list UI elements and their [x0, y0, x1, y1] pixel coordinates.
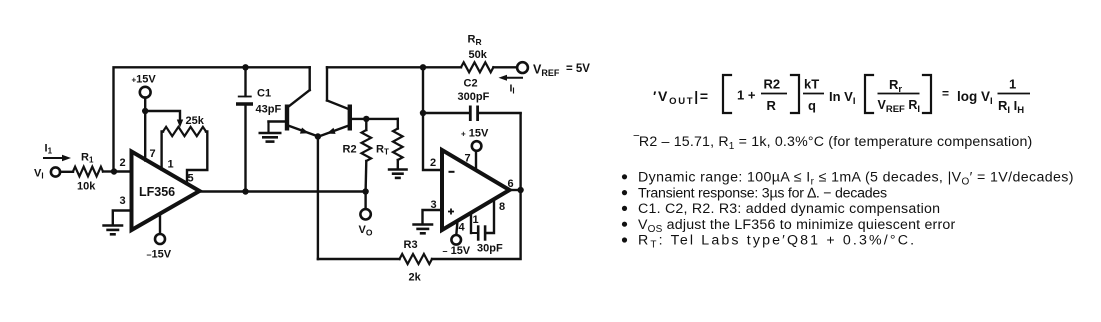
potentiometer 25k — [145, 111, 207, 184]
op-amp U1 LF356 — [132, 152, 200, 231]
formula fraction kT/q — [803, 77, 824, 114]
svg-text:300pF: 300pF — [458, 91, 490, 103]
wire emitters to R3 — [317, 137, 319, 260]
svg-text:R2: R2 — [764, 77, 781, 92]
svg-text:10k: 10k — [77, 181, 96, 193]
resistor RR 50k — [461, 34, 493, 73]
svg-text:2: 2 — [120, 157, 126, 169]
svg-text:3: 3 — [120, 195, 126, 207]
ground RT — [388, 170, 408, 178]
wire R1 to op-amp pin 2 — [114, 170, 132, 172]
svg-text:= 5V: = 5V — [566, 63, 590, 75]
bullet 4 — [622, 217, 956, 235]
current arrow II — [499, 75, 523, 96]
bullet 1 — [622, 170, 1074, 188]
note R2 temperature compensation — [633, 134, 1032, 152]
capacitor C2 300pF — [423, 78, 521, 122]
svg-text:25k: 25k — [186, 115, 205, 127]
transistor Q1 — [269, 67, 317, 136]
pin 2 label U1 — [120, 157, 126, 169]
svg-text:– 15V: – 15V — [443, 245, 471, 257]
svg-text:8: 8 — [499, 201, 505, 213]
svg-text:4: 4 — [459, 222, 466, 234]
formula fraction 1 over RI IH — [998, 77, 1031, 117]
rail Q2 collector — [327, 66, 461, 68]
svg-text:C1. C2, R2. R3: added dynamic: C1. C2, R2. R3: added dynamic compensati… — [638, 201, 940, 217]
pin 3 label U1 — [120, 195, 126, 207]
formula fraction R2/R — [761, 77, 787, 114]
wire inverting-node rail — [114, 67, 310, 171]
svg-text:–15V: –15V — [147, 249, 172, 261]
svg-text:2: 2 — [430, 157, 436, 169]
ground U2 pin 3 — [412, 210, 442, 233]
resistor RT — [376, 119, 403, 169]
svg-text:q: q — [808, 98, 816, 113]
node C1 bottom — [242, 188, 248, 194]
svg-text:=: = — [942, 87, 949, 101]
plus sign U2 — [448, 209, 454, 215]
bullet 2 — [622, 185, 887, 201]
svg-text:7: 7 — [465, 153, 471, 165]
svg-text:1: 1 — [168, 159, 174, 171]
ground U1 pin 3 — [102, 211, 131, 235]
svg-text:7: 7 — [150, 148, 156, 160]
node pin2 junction — [111, 168, 117, 174]
node VO junction — [362, 188, 368, 194]
resistor R1 10k — [60, 152, 114, 193]
-15V supply U2 — [443, 221, 471, 257]
svg-text:RT: Tel Labs type′Q81 + 0.3%/°: RT: Tel Labs type′Q81 + 0.3%/°C. — [638, 233, 916, 251]
output terminal VO — [359, 192, 373, 238]
node RR junction — [420, 64, 426, 70]
svg-text:‾R2 – 15.71, R1 = 1k, 0.3%°C (: ‾R2 – 15.71, R1 = 1k, 0.3%°C (for temper… — [633, 134, 1032, 152]
terminal VREF — [493, 62, 590, 78]
minus sign U2 — [449, 171, 455, 173]
svg-text:1 +: 1 + — [737, 88, 756, 103]
node U2 output — [517, 187, 523, 193]
svg-text:6: 6 — [508, 178, 514, 190]
current arrow I1 — [44, 143, 71, 162]
op-amp U2 — [442, 150, 510, 230]
wire pin 7 U1 — [145, 111, 155, 161]
+15V supply U1 — [132, 74, 157, 112]
pin 5 label U1 — [188, 173, 194, 185]
wire U2 output — [510, 189, 521, 191]
resistor R3 2k — [400, 239, 433, 284]
svg-text:kT: kT — [804, 77, 819, 92]
transistor Q2 — [321, 67, 367, 136]
pin 1 label U1 — [168, 159, 174, 171]
svg-text:2k: 2k — [409, 272, 422, 284]
formula bracket 2 — [791, 75, 799, 113]
formula bracket 3 — [865, 75, 873, 113]
svg-text:C2: C2 — [464, 78, 478, 90]
wire Q2 base to RT — [366, 118, 398, 120]
formula 1 plus — [737, 88, 756, 103]
capacitor 30pF pins 1-8 — [471, 200, 505, 255]
svg-text:LF356: LF356 — [139, 185, 175, 199]
node C2 left — [420, 110, 426, 116]
node common emitters — [315, 133, 321, 139]
pin 2 label U2 — [430, 157, 436, 169]
bullet 5 — [622, 233, 916, 251]
node C1 top junction — [242, 64, 248, 70]
wire bottom feedback left — [318, 258, 400, 260]
formula fraction Rr over VREF RI — [878, 77, 920, 115]
svg-text:5: 5 — [188, 173, 194, 185]
svg-text:C1: C1 — [257, 88, 271, 100]
wire U1 output — [200, 190, 366, 192]
svg-text:1: 1 — [473, 214, 479, 226]
formula bracket 4 — [923, 75, 931, 113]
svg-text:1: 1 — [1009, 77, 1016, 92]
svg-text:43pF: 43pF — [256, 104, 282, 116]
formula VOUT label — [653, 88, 710, 107]
resistor R2 — [343, 119, 372, 192]
node U1 supply junction — [142, 108, 148, 114]
svg-text:50k: 50k — [469, 49, 488, 61]
+15V supply U2 — [461, 128, 489, 171]
pin 6 label U2 — [508, 178, 514, 190]
svg-text:+ 15V: + 15V — [461, 128, 489, 140]
-15V supply U1 — [147, 214, 172, 261]
formula equals log — [942, 87, 993, 108]
wire U2 inverting branch — [423, 67, 442, 170]
formula ln VI — [829, 89, 855, 107]
pin 3 label U2 — [431, 199, 437, 211]
svg-text:+15V: +15V — [132, 74, 157, 86]
svg-text:30pF: 30pF — [477, 243, 503, 255]
svg-text:R3: R3 — [404, 239, 418, 251]
ground Q1 base — [259, 122, 282, 142]
input terminal VI — [34, 167, 60, 180]
wire bottom feedback right — [432, 114, 521, 260]
node Q2 base — [363, 116, 369, 122]
formula bracket 1 — [723, 75, 731, 113]
svg-text:R: R — [767, 98, 777, 113]
capacitor C1 43pF — [236, 67, 281, 191]
svg-text:Transient response: 3µs for ∆.: Transient response: 3µs for ∆. − decades — [638, 185, 887, 201]
svg-text:R2: R2 — [343, 144, 357, 156]
bullet 3 — [622, 201, 940, 217]
